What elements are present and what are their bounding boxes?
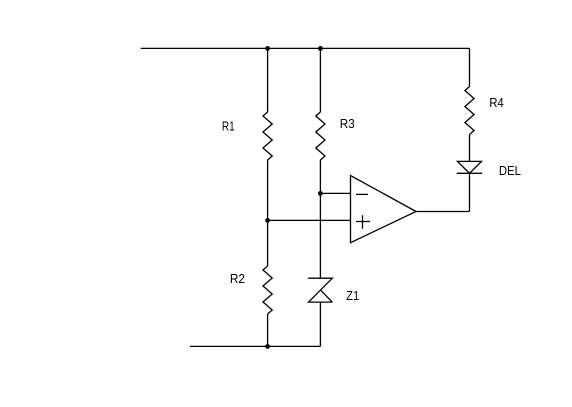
- wire DEL to output node: [469, 173, 471, 211]
- wire Z1 to bottom rail: [319, 302, 321, 346]
- wire bottom rail: [190, 345, 321, 347]
- op-amp U1: [351, 176, 417, 243]
- resistor R2: [263, 266, 272, 314]
- junction top of R1 column: [265, 46, 270, 51]
- resistor R4: [465, 87, 474, 135]
- wire plus input: [268, 219, 351, 221]
- junction top of R3 column: [318, 46, 323, 51]
- svg-text:R2: R2: [230, 272, 245, 286]
- op-amp plus sign: [356, 215, 370, 229]
- wire R1 to plus node: [267, 160, 269, 220]
- svg-text:R1: R1: [222, 120, 235, 134]
- wire minus input: [320, 192, 350, 194]
- resistor R3: [316, 112, 325, 160]
- junction bottom rail: [265, 344, 270, 349]
- wire top rail to R4: [469, 48, 471, 86]
- junction minus-input node: [318, 191, 323, 196]
- resistor R1: [263, 112, 272, 160]
- wire R4 to DEL: [469, 135, 471, 162]
- wire top rail to R1: [267, 48, 269, 112]
- svg-text:R3: R3: [340, 117, 355, 131]
- svg-text:Z1: Z1: [346, 289, 359, 303]
- zener diode Z1: [308, 278, 332, 302]
- junction plus-input node: [265, 218, 270, 223]
- svg-text:R4: R4: [489, 96, 504, 110]
- wire R2 to bottom rail: [267, 314, 269, 346]
- svg-text:DEL: DEL: [499, 164, 521, 178]
- wire R3 to minus node: [319, 160, 321, 193]
- LED diode DEL: [457, 161, 483, 173]
- wire plus node to R2: [267, 220, 269, 266]
- wire top rail: [141, 47, 470, 49]
- wire top rail to R3: [319, 48, 321, 112]
- wire minus node to Z1: [319, 193, 321, 278]
- wire op-amp output: [416, 211, 470, 213]
- op-amp minus sign: [356, 193, 368, 195]
